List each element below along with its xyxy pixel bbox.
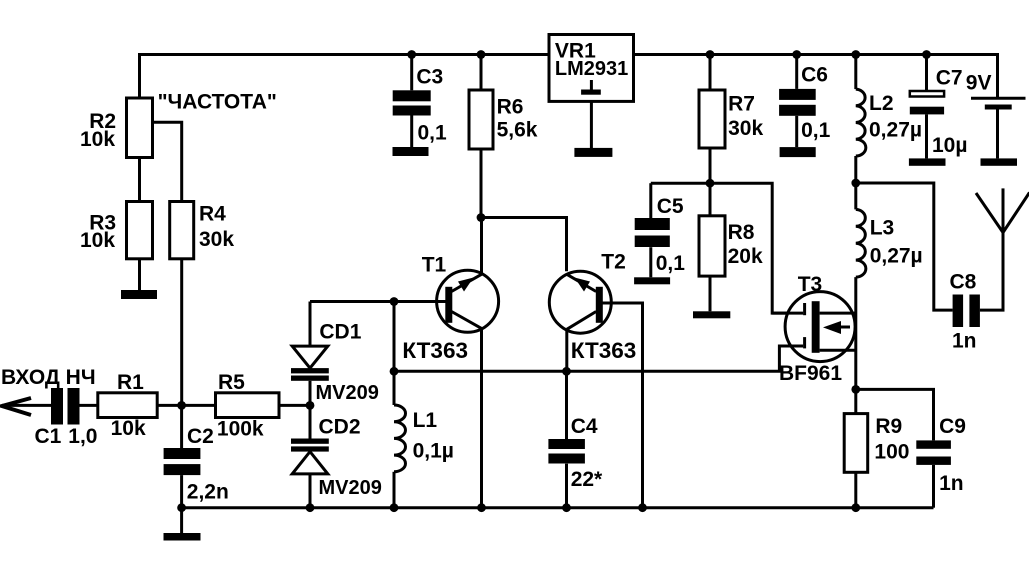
svg-text:0,1: 0,1	[656, 252, 686, 275]
svg-text:BF961: BF961	[779, 362, 842, 385]
antenna	[976, 188, 1029, 232]
svg-text:22*: 22*	[571, 468, 603, 491]
wire VR1 ground lead	[590, 101, 593, 148]
inductor L1	[394, 405, 406, 472]
wire L2 top	[854, 55, 857, 90]
svg-text:L2: L2	[869, 92, 894, 115]
svg-text:T1: T1	[422, 254, 447, 277]
wire C7 top	[925, 55, 928, 92]
resistor R3	[127, 202, 153, 259]
svg-text:C1: C1	[35, 425, 62, 448]
wire R2 wiper to R4	[153, 122, 182, 201]
wire R6 bottom to emitters node	[480, 149, 483, 218]
capacitor C8	[953, 295, 980, 328]
capacitor C2	[164, 448, 201, 475]
svg-text:ВХОД НЧ: ВХОД НЧ	[1, 366, 96, 389]
inductor L3	[856, 209, 866, 277]
wire C3 to ground	[410, 116, 413, 148]
wire node to C5 and T3 gate1	[651, 183, 803, 313]
svg-text:T3: T3	[798, 273, 823, 296]
wire C3 top	[410, 55, 413, 91]
wire feedback line to T3 gate2	[394, 346, 803, 371]
wire bottom ground rail	[182, 506, 934, 509]
wire T2 base to ground	[602, 303, 642, 508]
svg-text:КТ363: КТ363	[402, 338, 468, 363]
svg-text:30k: 30k	[728, 117, 763, 140]
svg-text:L1: L1	[413, 409, 438, 432]
svg-text:0,27µ: 0,27µ	[869, 119, 922, 142]
wire R7 top	[709, 55, 712, 91]
svg-text:MV209: MV209	[319, 477, 382, 499]
svg-text:1n: 1n	[939, 472, 964, 495]
transistor T1	[437, 270, 499, 332]
ground below C3	[393, 147, 429, 156]
wire node to C2	[180, 405, 183, 448]
wire tank vertical to L1	[393, 302, 396, 406]
svg-text:1n: 1n	[952, 330, 977, 353]
wire T1 emitter lead	[480, 218, 483, 275]
wire C6 top	[795, 55, 798, 89]
resistor R5	[216, 393, 280, 418]
wire R8 to ground	[709, 276, 712, 311]
svg-text:L3: L3	[870, 217, 895, 240]
capacitor C7 electrolytic	[910, 91, 944, 114]
svg-text:2,2n: 2,2n	[187, 481, 229, 504]
wire CD1 anode lead	[309, 302, 312, 347]
svg-text:C7: C7	[936, 67, 963, 90]
wire C2 to ground through bottom rail	[180, 475, 183, 533]
svg-text:CD1: CD1	[319, 321, 361, 344]
capacitor C9	[916, 440, 951, 465]
svg-text:LM2931: LM2931	[555, 58, 628, 80]
ground below C7	[909, 158, 946, 165]
svg-text:10k: 10k	[80, 229, 115, 252]
wire CD1 to CD2	[309, 381, 312, 439]
varicap diode CD2	[291, 439, 329, 474]
svg-text:5,6k: 5,6k	[497, 119, 538, 142]
ground below VR1	[574, 148, 612, 157]
resistor R6	[469, 90, 493, 149]
svg-text:MV209: MV209	[316, 382, 379, 404]
dual-gate MOSFET T3	[772, 292, 856, 362]
svg-text:100: 100	[874, 441, 909, 464]
svg-text:0,27µ: 0,27µ	[870, 245, 923, 268]
wire C6 to ground	[795, 116, 798, 147]
wire R6 top	[480, 55, 483, 91]
ground below C6	[780, 147, 816, 157]
wire C7 to ground	[925, 114, 928, 158]
svg-text:20k: 20k	[728, 245, 763, 268]
svg-text:CD2: CD2	[319, 416, 361, 439]
wire L1 to bottom rail	[393, 472, 396, 508]
ground below R3	[121, 290, 157, 299]
voltage regulator VR1	[549, 35, 634, 102]
svg-text:9V: 9V	[966, 72, 992, 95]
wire battery to ground	[996, 109, 999, 159]
ground below C5	[634, 277, 670, 284]
resistor R8	[699, 216, 725, 276]
wire R5 to varicap node	[279, 404, 310, 407]
resistor R1	[98, 393, 157, 418]
inductor L2	[856, 89, 866, 156]
svg-text:R9: R9	[875, 415, 902, 438]
capacitor C1	[51, 388, 80, 425]
wire top supply rail right of VR1	[634, 55, 998, 98]
resistor R7	[699, 90, 725, 148]
wire input arrow shaft	[2, 404, 51, 407]
svg-text:0,1µ: 0,1µ	[413, 440, 454, 463]
wire node to C8	[856, 183, 953, 310]
svg-text:10µ: 10µ	[932, 134, 967, 157]
wire R2 to R3	[138, 158, 141, 202]
input arrow	[2, 398, 31, 415]
wire T1 collector to bottom rail	[480, 328, 483, 507]
wire R3 to ground	[138, 259, 141, 290]
ground below battery	[981, 158, 1018, 165]
wire C4 bottom	[565, 464, 568, 508]
svg-text:C5: C5	[657, 195, 684, 218]
wire T1 base line	[310, 300, 446, 303]
resistor R4	[170, 202, 194, 259]
ground below C2	[164, 533, 201, 541]
wire R7 to R8 node	[709, 148, 712, 216]
svg-text:C8: C8	[950, 271, 977, 294]
potentiometer R2	[127, 98, 153, 158]
svg-text:0,1: 0,1	[418, 122, 448, 145]
wire T2 collector to feedback line	[565, 329, 568, 371]
ground below R8	[693, 311, 730, 318]
svg-text:C2: C2	[187, 425, 214, 448]
wire CD2 to bottom rail	[309, 474, 312, 508]
svg-text:R1: R1	[117, 371, 144, 394]
svg-text:R5: R5	[218, 371, 245, 394]
svg-text:C6: C6	[801, 64, 828, 87]
wire top supply rail left of VR1	[140, 55, 550, 100]
wire C1 to R1	[77, 404, 98, 407]
wire C5 to ground	[649, 247, 652, 277]
wire L3 to T3 drain and R9	[854, 277, 857, 414]
wire R9 node to C9	[856, 389, 934, 440]
svg-text:0,1: 0,1	[801, 119, 831, 142]
wire C8 to antenna	[980, 233, 1003, 311]
svg-text:R4: R4	[199, 203, 226, 226]
svg-text:10k: 10k	[80, 128, 115, 151]
svg-text:R6: R6	[497, 96, 524, 119]
transistor T2	[549, 271, 611, 333]
svg-text:100k: 100k	[217, 418, 264, 441]
battery 9V	[971, 98, 1026, 107]
wire R4 bottom to input node	[180, 259, 183, 406]
svg-text:R8: R8	[728, 221, 755, 244]
svg-text:"ЧАСТОТА": "ЧАСТОТА"	[158, 91, 277, 114]
wire C5 top	[649, 183, 652, 218]
svg-text:1,0: 1,0	[68, 425, 97, 448]
wire emitters node to T2 emitter	[481, 218, 567, 272]
varicap diode CD1	[291, 346, 329, 381]
wire C9 to bottom rail	[932, 465, 935, 508]
svg-text:30k: 30k	[199, 228, 234, 251]
wire C4 top	[565, 371, 568, 439]
wire R9 to bottom rail	[854, 472, 857, 507]
capacitor C6	[779, 89, 816, 116]
svg-text:C4: C4	[571, 415, 598, 438]
svg-text:T2: T2	[601, 251, 626, 274]
svg-text:10k: 10k	[111, 417, 146, 440]
capacitor C3	[393, 90, 431, 115]
svg-text:R7: R7	[728, 93, 755, 116]
capacitor C4	[548, 439, 585, 464]
svg-text:C9: C9	[939, 415, 966, 438]
wire L2 to L3 node	[854, 156, 857, 209]
wire R1 to R5 through node	[157, 404, 215, 407]
capacitor C5	[635, 218, 670, 247]
svg-text:C3: C3	[416, 66, 443, 89]
resistor R9	[844, 414, 868, 473]
svg-text:КТ363: КТ363	[571, 338, 637, 363]
